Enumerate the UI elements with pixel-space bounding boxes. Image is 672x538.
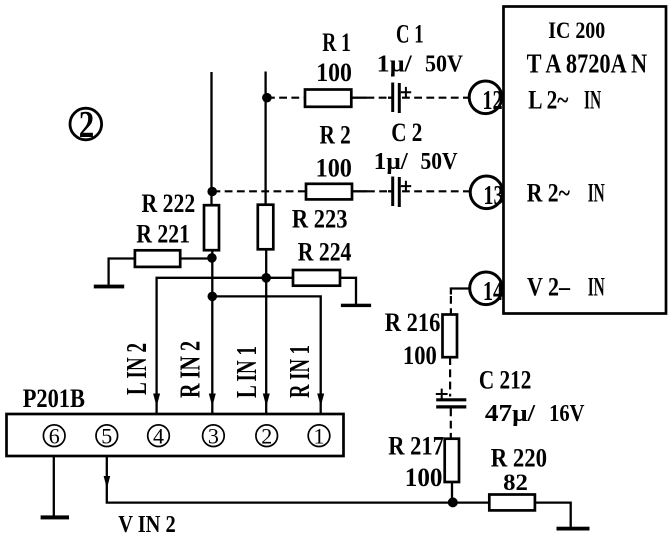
wire: pin 14 to R216 (451, 289, 470, 315)
resistor R220 body (489, 495, 535, 511)
svg-text:82: 82 (503, 470, 528, 495)
svg-text:V IN 2: V IN 2 (118, 512, 176, 538)
svg-text:R 224: R 224 (298, 238, 352, 267)
svg-text:14: 14 (483, 276, 503, 306)
node: junction dot R221/R222 (207, 253, 217, 263)
capacitor C2 (393, 177, 412, 208)
connector pin 1 (308, 423, 330, 448)
svg-text:L IN 2: L IN 2 (121, 343, 153, 395)
svg-text:R 217: R 217 (388, 431, 444, 460)
svg-text:IC 200: IC 200 (548, 18, 605, 43)
svg-text:C 1: C 1 (396, 19, 424, 48)
wire: dashed row R1 to C1 to pin12 (267, 97, 470, 99)
svg-text:R 222: R 222 (142, 189, 196, 218)
wire: R224 right lead to ground (340, 278, 356, 304)
capacitor C1 (393, 83, 412, 114)
ground below R221 (94, 285, 124, 289)
svg-text:1μ/: 1μ/ (377, 51, 412, 77)
svg-text:R IN 2: R IN 2 (175, 341, 207, 398)
svg-text:100: 100 (405, 463, 443, 492)
arrow into pin 2 (263, 394, 270, 407)
connector pin 6 (43, 423, 65, 448)
IC U200 box (504, 7, 667, 314)
pin 13 circle (R2-IN) (470, 176, 503, 210)
figure number 2 (70, 104, 102, 146)
ground below R224 (341, 304, 371, 307)
svg-text:R IN 1: R IN 1 (284, 345, 316, 398)
svg-text:100: 100 (403, 341, 437, 370)
wire: line A (L-in bus) (157, 278, 293, 414)
label C2 value 1u/50V (374, 149, 458, 175)
svg-text:2: 2 (261, 423, 272, 448)
wire: line B (R-in bus) (212, 296, 320, 414)
arrow into pin 4 (153, 394, 160, 407)
svg-text:R 223: R 223 (292, 205, 348, 234)
resistor R2 body (306, 184, 352, 200)
svg-text:2: 2 (79, 104, 95, 146)
svg-text:100: 100 (316, 153, 352, 182)
node: junction dot riser/R2 row (207, 187, 217, 197)
wire: right vertical riser (R1 net) (264, 72, 266, 205)
label C1 value 1u/50V (377, 51, 464, 77)
svg-text:13: 13 (483, 180, 503, 210)
svg-text:12: 12 (482, 85, 502, 115)
arrow into pin 3 (209, 394, 216, 407)
resistor R223 body (258, 205, 274, 250)
ground below pin 6 (41, 515, 69, 519)
label C212 value 47u/16V (485, 401, 585, 427)
wire: dashed row R2 to C2 to pin13 (213, 190, 471, 192)
svg-text:1μ/: 1μ/ (374, 149, 408, 175)
pin 14 circle (V2-IN) (470, 272, 503, 306)
connector pin 4 (148, 423, 170, 448)
svg-text:4: 4 (153, 423, 164, 448)
connector pin 3 (203, 423, 225, 448)
wire: R221 right lead (180, 257, 210, 259)
svg-text:50V: 50V (425, 51, 464, 77)
wire: R216 to C212 dashed (449, 357, 451, 396)
label V2-IN (527, 273, 605, 302)
svg-text:50V: 50V (421, 149, 459, 175)
resistor R1 body (305, 90, 351, 107)
svg-text:V 2–: V 2– (527, 273, 571, 302)
ground below R220 (557, 527, 590, 531)
resistor R216 body (443, 315, 458, 358)
wire: C212 to R217 dashed (450, 409, 452, 439)
node: junction dot line A (261, 273, 271, 283)
wire: R217 bottom lead (451, 482, 453, 503)
svg-text:P201B: P201B (23, 384, 85, 413)
connector P201B box (7, 414, 344, 456)
svg-text:R 2: R 2 (320, 120, 351, 149)
svg-text:R 220: R 220 (491, 444, 547, 473)
node: junction dot line B (208, 292, 218, 302)
wire: R221 left lead down (109, 259, 135, 285)
arrow into pin 1 (317, 394, 324, 407)
wire: pin 5 V IN 2 line (107, 456, 490, 503)
svg-text:R 2~: R 2~ (527, 179, 571, 208)
svg-text:1: 1 (314, 423, 325, 448)
resistor R224 body (293, 270, 340, 286)
svg-text:47μ/: 47μ/ (485, 401, 536, 427)
svg-text:IN: IN (588, 273, 605, 302)
svg-text:C 2: C 2 (391, 118, 422, 147)
svg-text:100: 100 (316, 58, 352, 87)
pin 12 circle (L2-IN) (469, 81, 502, 115)
wire: R223 bottom to connector pin2 (265, 249, 267, 414)
svg-text:IN: IN (588, 179, 605, 208)
connector pin 5 (96, 423, 118, 448)
resistor R217 body (445, 439, 459, 482)
svg-text:IN: IN (584, 85, 601, 114)
svg-text:16V: 16V (549, 401, 585, 427)
svg-text:R 216: R 216 (385, 308, 441, 337)
svg-text:R 221: R 221 (136, 220, 190, 249)
svg-text:R 1: R 1 (322, 28, 351, 57)
resistor R221 body (135, 250, 180, 267)
node: junction dot V IN 2 / R217 / R220 (448, 497, 458, 507)
label R2-IN (527, 179, 605, 208)
svg-text:L 2~: L 2~ (528, 85, 569, 114)
svg-text:C 212: C 212 (479, 366, 532, 395)
svg-text:6: 6 (49, 423, 60, 448)
label L2-IN (528, 85, 601, 114)
svg-text:T A 8720A N: T A 8720A N (527, 48, 648, 78)
capacitor C212 (436, 389, 467, 407)
node: junction dot riser/R1 row (262, 93, 272, 103)
resistor R222 body (204, 205, 219, 250)
svg-text:5: 5 (101, 423, 112, 448)
wire: left vertical riser (R2 net) (210, 72, 212, 205)
svg-text:L IN 1: L IN 1 (231, 346, 263, 398)
wire: R220 right lead to ground (535, 503, 571, 527)
wire: pin 6 to ground (53, 456, 55, 516)
svg-text:3: 3 (208, 423, 219, 448)
wire: R222 bottom to connector pin3 (211, 250, 213, 414)
connector pin 2 (256, 423, 278, 448)
arrow on pin 5 wire (104, 476, 111, 489)
